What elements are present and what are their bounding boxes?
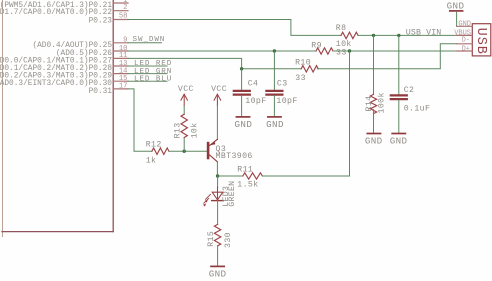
svg-text:GND: GND — [235, 119, 253, 130]
wire C2 lead from VBUS junction — [398, 35, 400, 94]
resistor R8 — [336, 24, 358, 49]
LED LED3 GREEN — [203, 181, 237, 207]
svg-text:GND: GND — [266, 119, 284, 130]
svg-text:C3: C3 — [277, 79, 288, 88]
svg-text:(AD1.7/CAP0.0/MAT0.0)P0.22: (AD1.7/CAP0.0/MAT0.0)P0.22 — [0, 9, 112, 17]
wire net pin11 to R10 with elbow — [128, 58, 301, 68]
wire R13 bottom lead — [183, 138, 185, 151]
capacitor C2 — [391, 86, 430, 114]
svg-text:D+: D+ — [462, 46, 470, 54]
svg-text:SW_DWN: SW_DWN — [133, 36, 166, 44]
wire net D+ from R9 to USB — [333, 50, 456, 52]
svg-text:10pF: 10pF — [276, 97, 297, 106]
svg-text:MBT3906: MBT3906 — [216, 152, 253, 161]
svg-text:(AD0.4/AOUT)P0.25: (AD0.4/AOUT)P0.25 — [32, 42, 112, 50]
svg-text:VCC: VCC — [178, 85, 194, 94]
connector USB — [454, 21, 491, 56]
resistor R10 — [295, 58, 318, 83]
svg-text:D-: D- — [462, 37, 470, 45]
pin P0.21 pin 1 — [0, 0, 128, 10]
svg-text:R11: R11 — [237, 166, 253, 175]
svg-text:1k: 1k — [146, 156, 157, 166]
svg-text:GND: GND — [209, 268, 227, 279]
junction collector node — [216, 174, 219, 177]
pin P0.26 pin 10 — [56, 45, 128, 58]
junction D+ at C3 — [273, 49, 276, 52]
pin P0.31 pin 17 — [89, 83, 128, 96]
wire C3 lead from D+ junction — [273, 51, 275, 90]
svg-text:R10: R10 — [295, 58, 311, 67]
svg-text:USB_VIN: USB_VIN — [406, 29, 442, 38]
junction D- at C4 — [240, 67, 243, 70]
wire R15 to ground — [217, 246, 219, 266]
resistor R15 — [207, 224, 233, 248]
resistor R13 — [174, 114, 200, 138]
svg-text:0.1uF: 0.1uF — [404, 104, 431, 113]
svg-text:R14: R14 — [365, 96, 374, 112]
svg-text:LED_BLU: LED_BLU — [134, 75, 172, 83]
wire VCC2 to Q3 emitter — [216, 106, 218, 140]
svg-text:10pF: 10pF — [245, 97, 266, 106]
svg-text:10k: 10k — [190, 122, 200, 138]
svg-text:17: 17 — [119, 83, 128, 91]
wire R14 to ground — [373, 110, 375, 133]
wire ground to USB GND pin — [456, 12, 458, 26]
ground under R14 — [365, 134, 383, 147]
ground under C4 — [235, 117, 253, 130]
svg-text:100k: 100k — [377, 92, 387, 113]
svg-text:330: 330 — [224, 232, 233, 248]
wire net D- from R10 to USB — [317, 44, 456, 69]
svg-text:GND: GND — [458, 21, 471, 29]
svg-text:GND: GND — [390, 136, 408, 147]
svg-text:GND: GND — [447, 0, 465, 11]
ground under C3 — [266, 117, 284, 130]
transistor Q3 MBT3906 — [207, 139, 253, 162]
wire net LED_RED pin13 — [128, 65, 167, 67]
wire C4 lead from D- junction — [241, 69, 243, 90]
wire net LED_BLU pin15 — [128, 80, 167, 82]
svg-text:R13: R13 — [174, 122, 183, 138]
capacitor C4 — [234, 79, 267, 106]
junction D+ at R11 — [348, 49, 351, 52]
svg-text:10k: 10k — [336, 39, 352, 49]
supply VCC symbol 2 — [214, 94, 221, 105]
capacitor C3 — [266, 79, 297, 106]
svg-text:GND: GND — [365, 136, 383, 147]
svg-text:58: 58 — [119, 13, 128, 21]
svg-text:33: 33 — [336, 48, 347, 57]
junction base at R13 — [183, 150, 186, 153]
resistor R12 — [146, 140, 169, 165]
resistor R9 — [311, 42, 346, 58]
resistor R14 — [365, 92, 387, 113]
wire LED3 to R15 — [217, 201, 219, 225]
wire C4 to ground — [241, 96, 243, 116]
svg-text:2: 2 — [123, 4, 127, 12]
pin P0.22 pin 2 — [0, 4, 128, 17]
svg-text:33: 33 — [295, 74, 306, 83]
wire collector node to R11 — [218, 175, 243, 177]
svg-text:P0.31: P0.31 — [89, 88, 113, 96]
svg-text:R15: R15 — [207, 231, 216, 247]
svg-text:R12: R12 — [146, 140, 162, 149]
junction on VBUS at C2 — [397, 34, 400, 37]
wire net D+ pin10 to R9 — [128, 50, 316, 52]
IC U1 body — [2, 0, 113, 237]
junction on VBUS at R14 — [372, 34, 375, 37]
pin P0.29 pin 14 — [0, 67, 128, 80]
wire Q3 collector down — [216, 162, 218, 176]
ground top right — [447, 0, 465, 11]
pin P0.27 pin 11 — [0, 52, 128, 65]
wire VCC1 to R13 — [183, 106, 185, 115]
wire C2 to ground — [398, 100, 400, 132]
pin P0.23 pin 58 — [89, 13, 128, 26]
wire collector node to LED3 — [217, 176, 219, 188]
wire C3 to ground — [273, 96, 275, 116]
svg-text:9: 9 — [123, 37, 127, 45]
supply VCC symbol 1 — [181, 94, 188, 105]
wire net pin58 to R8 — [128, 20, 341, 36]
wire net base row R12 to Q3 — [169, 150, 207, 152]
svg-text:C2: C2 — [404, 86, 415, 95]
ground under R15 — [209, 266, 227, 279]
svg-text:C4: C4 — [248, 79, 259, 88]
wire R11 to D+ net — [262, 51, 349, 176]
wire net SW_DWN pin9 — [128, 42, 162, 44]
wire net VBUS from R8 to USB — [358, 34, 457, 36]
wire net pin17 down to R12 — [128, 89, 152, 151]
svg-text:1.5k: 1.5k — [237, 180, 258, 190]
resistor R11 — [237, 166, 262, 190]
pin P0.30 pin 15 — [0, 75, 128, 88]
wire R14 lead from VBUS junction — [373, 35, 375, 94]
svg-text:R8: R8 — [336, 24, 347, 33]
pin P0.28 pin 13 — [0, 60, 128, 73]
ground under C2 — [390, 134, 408, 147]
wire net LED_GRN pin14 — [128, 73, 167, 75]
svg-text:GREEN: GREEN — [228, 181, 237, 207]
svg-text:USB: USB — [473, 28, 488, 55]
svg-text:P0.23: P0.23 — [89, 17, 113, 25]
pin P0.25 pin 9 — [32, 37, 128, 50]
svg-text:R9: R9 — [311, 42, 322, 51]
svg-text:VCC: VCC — [211, 85, 227, 94]
